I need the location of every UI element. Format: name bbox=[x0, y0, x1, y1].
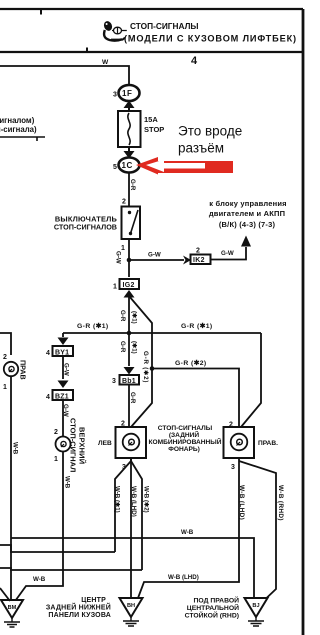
svg-text:ВЕРХНИЙ: ВЕРХНИЙ bbox=[78, 427, 87, 464]
svg-text:ФОНАРЬ): ФОНАРЬ) bbox=[168, 446, 200, 453]
svg-text:IK2: IK2 bbox=[193, 257, 205, 264]
svg-text:СТОП-СИГНАЛ: СТОП-СИГНАЛ bbox=[69, 418, 78, 472]
arrow up to ECU bbox=[241, 236, 251, 247]
red annotation arrow bbox=[136, 157, 233, 175]
svg-text:G-R (✱2): G-R (✱2) bbox=[175, 359, 207, 367]
left edge wire stub 2 bbox=[0, 568, 142, 570]
svg-text:3: 3 bbox=[113, 92, 117, 99]
left lamp middle ground wire bbox=[130, 458, 132, 598]
junction dot on bus bbox=[127, 331, 132, 336]
svg-text:G-W: G-W bbox=[63, 363, 70, 376]
svg-text:двигателем и АКПП: двигателем и АКПП bbox=[209, 209, 285, 218]
right lamp ground wire RHD bbox=[239, 461, 276, 599]
svg-text:5: 5 bbox=[113, 164, 117, 171]
svg-text:W-B: W-B bbox=[181, 529, 194, 536]
svg-text:G-R: G-R bbox=[129, 179, 136, 191]
connector Bb1 bbox=[112, 375, 139, 385]
svg-text:ЦЕНТРАЛЬНОЙ: ЦЕНТРАЛЬНОЙ bbox=[187, 603, 239, 612]
svg-text:G-R (✱1): G-R (✱1) bbox=[77, 322, 109, 330]
left edge wire stub 1 bbox=[0, 545, 115, 552]
svg-text:ПОД ПРАВОЙ: ПОД ПРАВОЙ bbox=[194, 596, 240, 605]
svg-text:1: 1 bbox=[113, 284, 117, 291]
svg-text:1: 1 bbox=[3, 384, 7, 391]
svg-text:ПРАВ.: ПРАВ. bbox=[258, 440, 278, 447]
left edge diagonal into left ground bbox=[0, 588, 10, 601]
svg-text:СТОП-СИГНАЛОВ: СТОП-СИГНАЛОВ bbox=[54, 223, 117, 232]
female arrow into Bb1 bbox=[124, 367, 135, 375]
fuse 15A STOP bbox=[118, 111, 164, 147]
svg-text:W-B (LHD): W-B (LHD) bbox=[168, 574, 199, 581]
ground BM (left) bbox=[1, 600, 23, 627]
svg-text:W-B (LHD): W-B (LHD) bbox=[130, 486, 137, 517]
svg-text:W-B (✱1): W-B (✱1) bbox=[114, 486, 121, 513]
svg-text:W-B: W-B bbox=[33, 576, 46, 583]
wire BZ1 to high stop lamp bbox=[62, 400, 64, 437]
svg-text:ПАНЕЛИ КУЗОВА: ПАНЕЛИ КУЗОВА bbox=[48, 612, 111, 619]
junction dot on variant-2 column bbox=[150, 366, 155, 371]
male arrow above 1C bbox=[124, 147, 135, 159]
svg-text:(В/К) (4-3) (7-3): (В/К) (4-3) (7-3) bbox=[219, 220, 276, 229]
svg-text:G-R (✱1): G-R (✱1) bbox=[181, 322, 213, 330]
connector BZ1 bbox=[46, 390, 73, 401]
frame top border line bbox=[0, 8, 303, 10]
svg-text:Это вроде: Это вроде bbox=[178, 124, 242, 139]
svg-text:W-B: W-B bbox=[64, 476, 71, 489]
variant-2 wire diagonal into left lamp bbox=[131, 369, 152, 427]
connector 1F bbox=[113, 85, 140, 101]
svg-text:3: 3 bbox=[112, 378, 116, 385]
svg-text:W-B (✱2): W-B (✱2) bbox=[143, 486, 150, 513]
right lamp ground wire LHD bbox=[138, 458, 239, 598]
left page wire to right lamp chain bbox=[0, 333, 11, 355]
svg-text:ПРАВ: ПРАВ bbox=[19, 360, 28, 380]
svg-text:STOP: STOP bbox=[144, 125, 164, 134]
svg-text:ЦЕНТР: ЦЕНТР bbox=[81, 597, 106, 604]
tick on top border bbox=[40, 9, 42, 15]
svg-text:3: 3 bbox=[231, 464, 235, 471]
female arrow into BY1 bbox=[58, 333, 69, 345]
wire bus to Bb1 bbox=[128, 333, 130, 366]
connector 1C bbox=[113, 158, 140, 173]
svg-text:G-R: G-R bbox=[119, 341, 126, 353]
wire switch to junction bbox=[128, 239, 130, 277]
wire bulb to ground bbox=[10, 376, 12, 600]
svg-text:Bb1: Bb1 bbox=[122, 378, 136, 385]
svg-text:СТОЙКОЙ (RHD): СТОЙКОЙ (RHD) bbox=[185, 611, 239, 620]
svg-text:н-сигнала): н-сигнала) bbox=[0, 125, 37, 134]
ground BJ (right) bbox=[245, 598, 268, 626]
svg-text:ЛЕВ: ЛЕВ bbox=[98, 440, 112, 447]
wire 1C to stop switch bbox=[128, 173, 130, 208]
right marker bulb bbox=[4, 362, 18, 376]
connector IG2 bbox=[113, 279, 139, 291]
left lamp right ground wire bbox=[131, 461, 142, 570]
svg-text:4: 4 bbox=[191, 55, 198, 67]
svg-text:СТОП-СИГНАЛЫ: СТОП-СИГНАЛЫ bbox=[130, 21, 199, 31]
wire IG2 arrow down to bus (variant 1) bbox=[128, 296, 130, 333]
svg-text:BY1: BY1 bbox=[55, 350, 69, 357]
svg-text:сигналом): сигналом) bbox=[0, 116, 35, 125]
svg-text:КОМБИНИРОВАННЫЙ: КОМБИНИРОВАННЫЙ bbox=[149, 437, 222, 446]
svg-text:ЗАДНЕЙ НИЖНЕЙ: ЗАДНЕЙ НИЖНЕЙ bbox=[46, 603, 111, 612]
svg-text:(МОДЕЛИ С КУЗОВОМ ЛИФТБЕК): (МОДЕЛИ С КУЗОВОМ ЛИФТБЕК) bbox=[124, 34, 297, 44]
right stop lamp (rear combination light) bbox=[224, 427, 255, 458]
svg-text:(✱1): (✱1) bbox=[131, 341, 138, 354]
svg-text:4: 4 bbox=[46, 350, 50, 357]
svg-text:ВМ: ВМ bbox=[8, 605, 17, 611]
svg-text:G-R (✱2): G-R (✱2) bbox=[142, 351, 149, 383]
svg-text:G-W: G-W bbox=[115, 251, 122, 264]
svg-text:G-W: G-W bbox=[221, 250, 234, 257]
svg-text:G-R: G-R bbox=[129, 392, 136, 404]
svg-text:1F: 1F bbox=[122, 89, 132, 98]
svg-text:2: 2 bbox=[196, 248, 200, 255]
svg-text:W: W bbox=[102, 59, 109, 66]
left stop lamp (rear combination light) bbox=[116, 427, 147, 458]
wire IK2 to ECU arrow bbox=[211, 247, 247, 260]
bus wire G-R(*1) bbox=[63, 332, 261, 334]
svg-text:1: 1 bbox=[54, 456, 58, 463]
female arrow into IK2 bbox=[183, 256, 191, 265]
junction dot bbox=[127, 258, 132, 263]
svg-text:(✱1): (✱1) bbox=[131, 311, 138, 324]
tick on header bottom line bbox=[86, 48, 88, 53]
female arrow into BZ1 bbox=[58, 381, 69, 389]
header icon (pedal with stop lamp) bbox=[103, 20, 127, 41]
wire W from left edge to fuse column bbox=[0, 66, 129, 85]
svg-text:2: 2 bbox=[54, 429, 58, 436]
bus right corner down to right lamp bbox=[241, 333, 261, 427]
wire high stop lamp to ground bbox=[16, 452, 64, 601]
svg-text:4: 4 bbox=[46, 394, 50, 401]
svg-text:G-R: G-R bbox=[119, 310, 126, 322]
svg-text:разъём: разъём bbox=[178, 141, 224, 156]
svg-text:1C: 1C bbox=[122, 161, 133, 170]
svg-text:G-W: G-W bbox=[148, 252, 161, 259]
stop lamp switch bbox=[121, 199, 140, 253]
wire Bb1 to left lamp bbox=[128, 385, 130, 428]
svg-text:ВJ: ВJ bbox=[252, 603, 259, 609]
svg-text:(ЗАДНИЙ: (ЗАДНИЙ bbox=[169, 430, 200, 439]
variant-2 branch wire to right lamp bbox=[152, 369, 239, 428]
male arrow below IG2 pointing up bbox=[124, 290, 135, 298]
male arrow below 1F bbox=[124, 101, 135, 113]
long W-B wire to right ground bbox=[11, 538, 254, 598]
svg-text:W-B: W-B bbox=[12, 442, 19, 455]
left lamp ground wires fanout bbox=[115, 458, 131, 552]
high mount stop lamp bulb bbox=[56, 437, 71, 452]
svg-text:15A: 15A bbox=[144, 115, 158, 124]
connector IK2 bbox=[191, 248, 211, 265]
svg-text:к блоку управления: к блоку управления bbox=[209, 199, 286, 208]
svg-text:2: 2 bbox=[3, 354, 7, 361]
frame right border bbox=[302, 9, 305, 635]
frame header bottom line bbox=[0, 51, 303, 53]
connector BY1 bbox=[46, 346, 73, 357]
svg-text:BZ1: BZ1 bbox=[55, 394, 69, 401]
svg-text:2: 2 bbox=[122, 199, 126, 206]
svg-text:ВН: ВН bbox=[127, 603, 135, 609]
cut-off wire at left edge y137 bbox=[0, 136, 45, 138]
wire BY1 to BZ1 bbox=[62, 356, 64, 379]
ground BN (center) bbox=[120, 598, 143, 626]
svg-text:IG2: IG2 bbox=[123, 282, 135, 289]
svg-text:W-B (RHD): W-B (RHD) bbox=[277, 485, 284, 521]
svg-text:W-B (LHD): W-B (LHD) bbox=[238, 485, 245, 520]
wire diagonal to variant-2 column bbox=[129, 296, 152, 369]
svg-text:СТОП-СИГНАЛЫ: СТОП-СИГНАЛЫ bbox=[158, 425, 213, 432]
wire junction to IK2 bbox=[129, 259, 184, 261]
svg-text:G-W: G-W bbox=[62, 404, 69, 417]
